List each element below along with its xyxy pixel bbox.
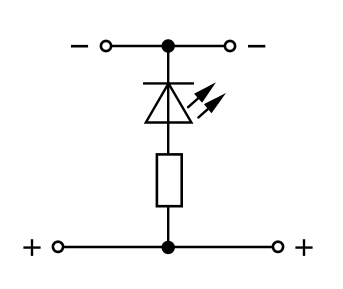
- junction dot bottom: [162, 241, 175, 254]
- terminal top-right (open circle): [225, 41, 235, 51]
- top negative bus wire: [106, 45, 230, 47]
- left plus polarity label: [23, 239, 40, 256]
- left minus polarity label: [71, 45, 88, 48]
- bottom positive bus wire: [58, 246, 278, 248]
- terminal top-left (open circle): [101, 41, 111, 51]
- terminal bottom-left (open circle): [53, 242, 63, 252]
- LED anode triangle: [146, 83, 192, 122]
- LED light emission arrow 1: [188, 82, 216, 107]
- vertical branch wire: [167, 46, 169, 247]
- right plus polarity label: [295, 239, 312, 256]
- LED light emission arrow 2: [198, 93, 226, 118]
- LED cathode bar: [143, 82, 194, 84]
- junction dot top: [162, 39, 175, 52]
- right minus polarity label: [248, 45, 265, 48]
- terminal bottom-right (open circle): [273, 242, 283, 252]
- resistor body: [157, 154, 182, 206]
